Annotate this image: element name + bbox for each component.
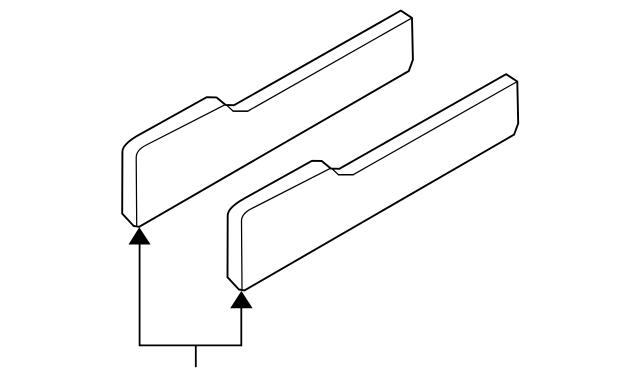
sill plate part 2 (lower right): [228, 74, 519, 290]
callout arrow 2: [230, 291, 252, 308]
sill plate part 1 (upper left): [122, 11, 413, 227]
leader stem: [195, 345, 197, 367]
callout arrow 1: [129, 227, 151, 244]
leader bracket line: [140, 240, 242, 345]
